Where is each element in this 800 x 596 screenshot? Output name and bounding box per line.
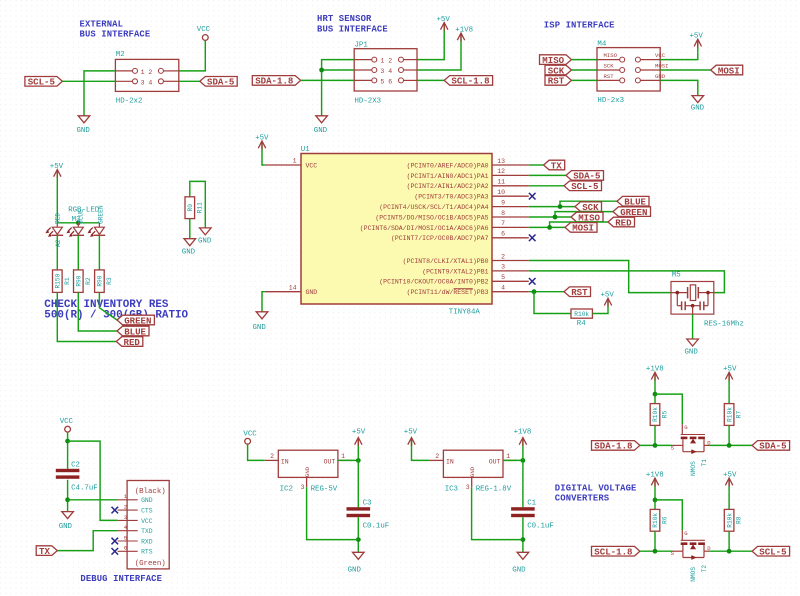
svg-text:TINY84A: TINY84A [449, 309, 481, 317]
wire R3 to GREEN flag [99, 292, 117, 320]
wire M2 pin 4 to SDA-5 [179, 80, 200, 82]
svg-text:GND: GND [141, 497, 153, 504]
net flag MISO at ISP [540, 55, 572, 66]
svg-text:GND: GND [253, 324, 267, 332]
wire TX to TXD pin [57, 531, 117, 551]
svg-text:+5V: +5V [255, 135, 269, 143]
svg-text:VCC: VCC [243, 430, 257, 438]
svg-text:+5V: +5V [404, 429, 418, 437]
svg-text:5: 5 [501, 274, 505, 281]
svg-text:13: 13 [497, 158, 505, 165]
wire resonator center to ground [692, 314, 694, 339]
wire +5V to R8 [728, 491, 730, 509]
wire VCC branch to connector VCC pin [68, 441, 118, 520]
svg-text:+1V8: +1V8 [646, 471, 664, 479]
net flag MISO at U1 [571, 212, 603, 223]
wire JP1 pin 1 to GND rail [322, 60, 355, 116]
svg-text:SCL-5: SCL-5 [571, 181, 598, 192]
svg-text:7: 7 [501, 220, 505, 227]
ground at IC2 [348, 552, 365, 574]
net flag GREEN [613, 207, 651, 218]
svg-text:+5V: +5V [50, 163, 64, 171]
net flag SCL-1.8 at JP1 [444, 76, 492, 87]
svg-text:GREEN: GREEN [124, 315, 151, 326]
svg-text:MOSI: MOSI [655, 62, 668, 69]
ground at U1 [253, 312, 268, 332]
wire branch to BLUE [560, 201, 617, 206]
power VCC symbol at IC2 [243, 430, 257, 444]
ground at IC3 [512, 552, 528, 574]
wire gate of T1 [655, 394, 682, 424]
junction at T1 source [653, 443, 658, 448]
svg-text:IN: IN [446, 459, 454, 466]
ground at M2 [77, 116, 91, 135]
no-connect X on U1 pin 6 PA7 [529, 235, 536, 242]
junction +1V8 branch at T2 [653, 498, 658, 503]
svg-text:11: 11 [497, 179, 505, 186]
wire RESET net to R4 [534, 292, 571, 314]
wire T1 drain to SDA-5 [710, 444, 753, 446]
resonator M5 RES-16Mhz [671, 271, 744, 328]
U1 right pin stubs, numbers and names [360, 158, 529, 296]
svg-text:BUS INTERFACE: BUS INTERFACE [80, 30, 151, 40]
LED red element of M3 [45, 223, 63, 237]
wire C3 to ground [357, 517, 359, 552]
svg-text:RED: RED [54, 213, 61, 224]
wire VCC to M2 pin 2 [179, 40, 206, 71]
wire SDA-1.8 to JP1 pin 5 [301, 79, 355, 81]
junction on RESET net [532, 289, 537, 294]
wire IC2 output [338, 459, 358, 461]
svg-text:2: 2 [270, 453, 274, 460]
net flag SCK at ISP [545, 65, 572, 76]
svg-text:HD-2x3: HD-2x3 [597, 97, 624, 105]
wire R1 to RED flag [57, 292, 116, 341]
M2 pin 2 [158, 68, 163, 73]
net flag GREEN at LEDs [117, 315, 154, 326]
svg-text:VCC: VCC [60, 418, 74, 426]
svg-text:+5V: +5V [437, 16, 451, 24]
wire +5V to IC3 input [412, 451, 430, 461]
wire IC3 output to C1 [522, 460, 524, 507]
M2 pin 1 [133, 68, 138, 73]
svg-text:+1V8: +1V8 [514, 429, 532, 437]
debug connector pin RTS [118, 545, 153, 556]
resistor R3 value R90 [95, 270, 113, 293]
svg-text:U1: U1 [301, 146, 310, 154]
power VCC symbol at M2 [197, 26, 211, 40]
svg-text:GND: GND [655, 73, 666, 80]
svg-text:R90: R90 [76, 275, 83, 286]
svg-text:(PCINT8/CLKI/XTAL1)PB0: (PCINT8/CLKI/XTAL1)PB0 [403, 258, 489, 265]
net flag SCL-5 left [25, 77, 63, 88]
wire R8 to SCL-5 net [728, 531, 730, 551]
svg-text:3: 3 [501, 264, 505, 271]
svg-text:BLUE: BLUE [124, 326, 146, 337]
junction at T2 source [653, 549, 658, 554]
wire LED anode rail [57, 222, 99, 224]
svg-text:(PCINT0/AREF/ADC0)PA0: (PCINT0/AREF/ADC0)PA0 [407, 162, 489, 169]
junction +1V8 branch at T1 [653, 392, 658, 397]
svg-text:(PCINT6/SDA/DI/MOSI/OC1A/ADC6): (PCINT6/SDA/DI/MOSI/OC1A/ADC6)PA6 [360, 225, 489, 232]
junction at T1 drain [727, 443, 732, 448]
svg-text:VCC: VCC [141, 518, 153, 525]
svg-text:SCL-1.8: SCL-1.8 [594, 547, 632, 558]
svg-text:C3: C3 [363, 500, 372, 508]
no-connect X on U1 pin 5 PB2 [529, 278, 536, 285]
svg-text:(PCINT3/T0/ADC3)PA3: (PCINT3/T0/ADC3)PA3 [414, 194, 488, 201]
header M2 HD-2x2 [115, 51, 178, 105]
wire U1 GND pin to ground [262, 292, 265, 312]
svg-text:SDA-1.8: SDA-1.8 [255, 76, 293, 87]
voltage regulator IC3 REG-1.8V [430, 450, 517, 494]
wire M4 MOSI pin to MOSI flag [660, 69, 711, 71]
svg-text:DIGITAL VOLTAGE: DIGITAL VOLTAGE [555, 483, 637, 493]
power +5V arrow at IC2 output [352, 429, 366, 451]
svg-text:2: 2 [501, 253, 505, 260]
svg-text:3: 3 [301, 484, 305, 491]
svg-text:+5V: +5V [352, 429, 366, 437]
svg-text:JP1: JP1 [355, 41, 369, 49]
wire R11 bottom to ground [189, 219, 191, 239]
wire R7 to SDA-5 net [728, 425, 730, 445]
power +5V arrow at IC3 input [404, 429, 418, 451]
junction at T2 drain [727, 549, 732, 554]
svg-text:IN: IN [281, 459, 289, 466]
junction at IC2 ground [356, 537, 361, 542]
net flag RED at LEDs [116, 337, 143, 348]
junction at IC2 output [356, 458, 361, 463]
svg-text:SCK: SCK [548, 65, 565, 76]
capacitor C3 value C0.1uF [347, 500, 390, 531]
svg-text:HD-2X3: HD-2X3 [355, 97, 382, 105]
svg-text:M2: M2 [116, 51, 125, 59]
svg-text:NMOS: NMOS [690, 567, 697, 582]
svg-text:C4.7uF: C4.7uF [71, 484, 98, 492]
LED green element of M3 [87, 223, 105, 237]
net flag BLUE at LEDs [117, 326, 149, 337]
wire +5V to R7 [728, 385, 730, 403]
LED blue element of M3 [66, 223, 84, 237]
svg-text:C0.1uF: C0.1uF [363, 523, 390, 531]
power +1V8 arrow at IC3 output [514, 429, 532, 451]
svg-text:C2: C2 [71, 461, 80, 469]
svg-text:(PCINT11/dW/RESET)PB3: (PCINT11/dW/RESET)PB3 [407, 289, 489, 296]
svg-text:R10k: R10k [652, 407, 659, 422]
M2 pin 4 [158, 79, 163, 84]
net flag SDA-5 at U1 [566, 171, 604, 182]
M4 pin right row 2 [635, 68, 640, 73]
wire +5V to M4 VCC pin [660, 52, 698, 59]
svg-text:GND: GND [314, 127, 328, 135]
junction on PA6/MOSI net [547, 225, 552, 230]
net flag SDA-5 [752, 441, 790, 452]
debug connector pin GND [118, 493, 153, 504]
power +5V arrow at U1 VCC [255, 135, 269, 154]
JP1 pin 3 [372, 68, 377, 73]
wire +5V arrow to junction [357, 451, 359, 461]
junction on PA5/MISO net [553, 215, 558, 220]
power +5V arrow at RGB LED [50, 163, 64, 182]
wire T2 drain to SCL-5 [710, 550, 753, 552]
wire IC2 GND pin to ground rail [307, 487, 359, 539]
wire R2 to BLUE flag [78, 292, 117, 331]
svg-text:RED: RED [124, 337, 141, 348]
svg-text:5 6: 5 6 [380, 78, 392, 85]
power +5V arrow at ISP [690, 33, 704, 53]
svg-text:(Black): (Black) [135, 488, 166, 496]
debug connector pin VCC [118, 514, 153, 525]
svg-text:M5: M5 [672, 271, 681, 279]
svg-text:(PCINT7/ICP/OC0B/ADC7)PA7: (PCINT7/ICP/OC0B/ADC7)PA7 [391, 235, 489, 242]
ground below R11 [182, 239, 196, 257]
svg-text:GND: GND [77, 127, 91, 135]
svg-text:R150: R150 [55, 273, 62, 288]
svg-text:VCC: VCC [197, 26, 211, 34]
wire U1 PA5 to MISO [529, 216, 571, 218]
svg-text:R6: R6 [662, 516, 669, 524]
svg-text:3: 3 [124, 514, 127, 521]
net flag BLUE [617, 196, 649, 207]
svg-text:DEBUG INTERFACE: DEBUG INTERFACE [80, 574, 162, 584]
wire +1V8 arrow to junction [522, 451, 524, 461]
svg-text:R2: R2 [85, 277, 92, 285]
svg-text:10: 10 [497, 189, 505, 196]
svg-text:T1: T1 [701, 459, 708, 467]
svg-text:TXD: TXD [141, 528, 153, 535]
wire +5V down to LED rail [56, 183, 58, 223]
resistor R2 value R90 [74, 270, 92, 293]
svg-text:+5V: +5V [723, 471, 737, 479]
debug connector pin RXD [118, 534, 153, 545]
wire R5 to SDA-1.8 net [654, 425, 656, 445]
svg-text:SDA-5: SDA-5 [207, 77, 234, 88]
net flag SDA-1.8 to JP1 [252, 76, 300, 87]
wire IC3 GND pin to ground rail [472, 487, 523, 539]
wire branch to RED [550, 222, 608, 227]
svg-text:GND: GND [304, 466, 311, 477]
net flag MOSI at U1 [565, 223, 597, 234]
wire U1 PA4 to SCK [529, 206, 575, 208]
svg-text:C1: C1 [527, 500, 536, 508]
svg-text:M4: M4 [597, 40, 606, 48]
svg-text:(PCINT2/AIN1/ADC2)PA2: (PCINT2/AIN1/ADC2)PA2 [407, 183, 489, 190]
debug connector pin TXD [118, 524, 153, 535]
svg-text:GND: GND [512, 566, 526, 574]
svg-text:+1V8: +1V8 [455, 26, 473, 34]
svg-text:T2: T2 [701, 565, 708, 573]
wire SCL-1.8 to T2 source [640, 550, 673, 552]
svg-text:R10k: R10k [652, 513, 659, 528]
svg-text:BUS INTERFACE: BUS INTERFACE [317, 24, 388, 34]
no-connect X on U1 pin 10 PA3 [529, 193, 536, 200]
wire SDA-1.8 to T1 source [640, 444, 673, 446]
svg-text:3 4: 3 4 [380, 68, 392, 75]
svg-text:8: 8 [501, 210, 505, 217]
svg-text:12: 12 [497, 168, 505, 175]
wire C2 to ground [67, 480, 69, 512]
wire gate of T2 [655, 500, 682, 530]
M4 pin left row 2 [620, 68, 625, 73]
svg-text:C0.1uF: C0.1uF [527, 523, 554, 531]
wire +5V to U1 VCC pin [262, 154, 265, 165]
svg-text:TX: TX [39, 546, 50, 557]
wire U1 PA0 to TX [529, 164, 544, 166]
svg-text:2: 2 [435, 453, 439, 460]
svg-text:GND: GND [685, 348, 699, 356]
JP1 pin 2 [399, 57, 404, 62]
wire JP1 pin 3 to GND rail [322, 69, 355, 71]
JP1 pin 5 [372, 78, 377, 83]
no-connect X on CTS [112, 507, 119, 514]
power +5V arrow at R4 [601, 292, 615, 312]
svg-text:14: 14 [289, 284, 297, 291]
power +1V8 arrow at JP1 [455, 26, 473, 46]
svg-text:+5V: +5V [723, 366, 737, 374]
svg-text:R7: R7 [736, 411, 743, 419]
wire U1 PB1 XTAL2 to resonator [529, 271, 725, 293]
svg-text:SDA-1.8: SDA-1.8 [594, 441, 632, 452]
svg-text:SCL-5: SCL-5 [759, 547, 786, 558]
RGB LED M3 labels [54, 205, 104, 247]
net flag SDA-1.8 [592, 441, 640, 452]
svg-text:TX: TX [551, 160, 562, 171]
svg-text:+1V8: +1V8 [646, 366, 664, 374]
svg-text:ISP INTERFACE: ISP INTERFACE [544, 20, 615, 30]
svg-text:SCK: SCK [604, 62, 615, 69]
svg-text:GND: GND [182, 248, 196, 256]
svg-text:2: 2 [124, 504, 127, 511]
power +1V8 arrow at T2 [646, 471, 664, 491]
debug connector box [127, 481, 169, 569]
JP1 pin 4 [399, 68, 404, 73]
wire M4 GND pin to ground [660, 80, 698, 95]
svg-text:(PCINT9/XTAL2)PB1: (PCINT9/XTAL2)PB1 [422, 268, 488, 275]
wire SCK to M4 [572, 69, 598, 71]
svg-text:3 4: 3 4 [141, 79, 153, 86]
wire U1 PB0 XTAL1 to resonator [529, 261, 671, 293]
wire U1 PB3 to RST [529, 291, 564, 293]
svg-text:(PCINT5/DO/MISO/OC1B/ADC5)PA5: (PCINT5/DO/MISO/OC1B/ADC5)PA5 [375, 214, 488, 221]
wire IC3 output [503, 459, 523, 461]
svg-text:1 2: 1 2 [380, 58, 392, 65]
net flag SCK at U1 [575, 202, 602, 213]
net flag TX at debug [36, 546, 57, 557]
svg-text:R4: R4 [577, 320, 586, 328]
svg-text:EXTERNAL: EXTERNAL [80, 20, 124, 30]
junction at IC3 output [521, 458, 526, 463]
svg-text:VCC: VCC [306, 162, 318, 169]
svg-text:6: 6 [124, 545, 127, 552]
debug connector pin CTS [118, 504, 153, 515]
svg-text:(Green): (Green) [135, 560, 166, 568]
transistor T2 NMOS [671, 530, 712, 582]
ground at debug [59, 512, 74, 531]
svg-text:R3: R3 [106, 277, 113, 285]
svg-text:SCL-1.8: SCL-1.8 [451, 76, 489, 87]
svg-text:A2: A2 [55, 239, 62, 247]
capacitor C2 value C4.7uF [56, 461, 98, 492]
header M4 HD-2x3 [597, 40, 668, 105]
voltage regulator IC2 REG-5V [265, 450, 352, 494]
wire RST to M4 [572, 79, 598, 81]
M4 pin right row 1 [635, 57, 640, 62]
M2 pin 3 [133, 79, 138, 84]
header JP1 HD-2X3 [354, 41, 417, 105]
svg-text:R10k: R10k [574, 311, 589, 318]
wire +1V8 to R6 [654, 491, 656, 509]
svg-text:CTS: CTS [141, 508, 153, 515]
svg-text:5: 5 [124, 534, 127, 541]
resistor R4 value R10k [571, 309, 592, 328]
U1 left pins VCC pin1, GND pin14 [265, 158, 318, 297]
wire U1 PA2 to SCL-5 [529, 185, 564, 187]
svg-text:1: 1 [293, 158, 297, 165]
svg-text:GND: GND [691, 105, 705, 113]
ground right of R11 [198, 228, 212, 246]
net flag RST at U1 [564, 287, 591, 298]
svg-text:OUT: OUT [324, 459, 336, 466]
wire +1V8 to R5 [654, 385, 656, 403]
resistor R5 value R10k [650, 404, 668, 426]
svg-text:RST: RST [604, 73, 615, 80]
wire M2 pin 1 to GND [84, 71, 115, 116]
wire ground to connector GND pin [68, 499, 118, 501]
svg-text:R90: R90 [97, 275, 104, 286]
junction on LED anode rail [76, 220, 81, 225]
svg-text:MOSI: MOSI [718, 65, 740, 76]
resistor R7 value R10k [724, 404, 742, 426]
svg-text:MISO: MISO [604, 52, 618, 59]
svg-text:RED: RED [615, 217, 632, 228]
transistor T1 NMOS [671, 424, 712, 476]
wire blue LED cathode to R2 [77, 235, 79, 270]
svg-text:RTS: RTS [141, 549, 153, 556]
svg-text:RES-16Mhz: RES-16Mhz [704, 320, 744, 328]
svg-text:SDA-5: SDA-5 [573, 171, 600, 182]
M4 pin left row 1 [620, 57, 625, 62]
M4 pin right row 3 [635, 78, 640, 83]
svg-text:VCC: VCC [655, 52, 666, 59]
junction on JP1 ground rail [319, 68, 324, 73]
resistor R6 value R10k [650, 509, 668, 531]
svg-text:9: 9 [501, 199, 505, 206]
wire R11 top to ground right [190, 181, 206, 228]
power +5V arrow at T2 [723, 471, 737, 491]
svg-text:RST: RST [571, 287, 588, 298]
svg-text:(PCINT10/CKOUT/OC0A/INT0)PB2: (PCINT10/CKOUT/OC0A/INT0)PB2 [379, 279, 488, 286]
junction on PA4/SCK net [558, 204, 563, 209]
svg-text:+5V: +5V [601, 292, 615, 300]
svg-text:BLUE: BLUE [624, 197, 646, 208]
resistor R1 value R150 [53, 270, 71, 293]
wire branch to GREEN [555, 212, 613, 217]
svg-text:R0: R0 [187, 204, 194, 212]
svg-text:SDA-5: SDA-5 [759, 441, 786, 452]
svg-text:GREEN: GREEN [98, 205, 105, 224]
power VCC symbol at debug [60, 418, 74, 432]
wire C1 to ground [522, 517, 524, 552]
svg-text:+5V: +5V [690, 33, 704, 41]
svg-text:REG-1.8V: REG-1.8V [476, 486, 512, 494]
net flag SCL-1.8 [592, 546, 640, 557]
wire R6 to SCL-1.8 net [654, 531, 656, 551]
wire U1 PA1 to SDA-5 [529, 174, 566, 176]
ground at ISP [691, 96, 705, 113]
wire VCC to C2 [67, 432, 69, 469]
svg-text:(PCINT1/AIN0/ADC1)PA1: (PCINT1/AIN0/ADC1)PA1 [407, 173, 489, 180]
svg-text:GND: GND [59, 523, 73, 531]
